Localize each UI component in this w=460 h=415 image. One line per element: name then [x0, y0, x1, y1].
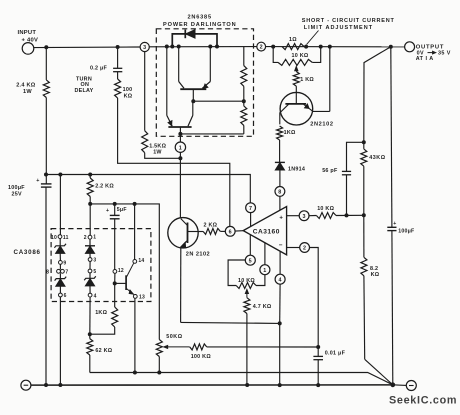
svg-text:1: 1 [263, 268, 266, 274]
capacitor 0.01uF [313, 356, 323, 359]
junction Q2 collector rail [165, 45, 169, 49]
wire pin4 to 62K [89, 297, 91, 339]
pin 12 circle [113, 270, 117, 274]
svg-text:+: + [279, 216, 283, 222]
pin 5 circle [88, 269, 92, 273]
label 0.2uF [90, 65, 108, 71]
svg-text:10: 10 [51, 235, 57, 241]
potentiometer 50K [156, 340, 162, 357]
label 50K [166, 334, 183, 340]
node 5 [245, 255, 255, 265]
big ground junction [390, 382, 395, 387]
wire Q3 emitter up to rail [329, 47, 331, 112]
svg-text:56 pF: 56 pF [322, 168, 338, 174]
label 1K collector [284, 130, 296, 136]
op-amp U1 CA3160 [243, 207, 286, 255]
svg-text:8.2: 8.2 [370, 266, 378, 272]
junction Q1 collector [177, 45, 181, 49]
svg-text:1N914: 1N914 [288, 167, 305, 173]
svg-text:2N 2102: 2N 2102 [186, 252, 210, 258]
wire pin6 to ground [59, 297, 61, 385]
wire rail to pin10/11 [59, 175, 61, 235]
pin 14 circle [133, 260, 137, 264]
wire 1N914 to node 8 [279, 170, 281, 187]
svg-text:35 V: 35 V [438, 50, 451, 56]
svg-text:50KΩ: 50KΩ [166, 334, 183, 340]
transistor T5 (CA3086) [115, 263, 134, 294]
diode D3 (CA3086) [85, 246, 95, 254]
resistor 1K (Q3 collector) [277, 126, 283, 140]
wire 0.01uF wires [317, 347, 319, 385]
svg-text:CA3086: CA3086 [14, 249, 41, 256]
wire D2 to pin 6 [59, 286, 61, 293]
junction 1K/62K [88, 332, 92, 336]
junction 100uF ground [44, 383, 48, 387]
svg-text:DELAY: DELAY [75, 88, 94, 94]
capacitor 0.2uF [113, 68, 122, 71]
svg-text:8: 8 [278, 190, 281, 196]
resistor 100K (delay) [115, 79, 121, 98]
junction pin6 ground [58, 383, 62, 387]
capacitor 56pF [342, 171, 351, 174]
resistor 2K [203, 228, 220, 234]
svg-text:−: − [279, 242, 283, 249]
svg-text:2.4 KΩ: 2.4 KΩ [16, 83, 36, 89]
resistor 1K (wiper) [293, 72, 299, 87]
svg-text:OUTPUT: OUTPUT [416, 44, 444, 50]
svg-text:1W: 1W [153, 150, 162, 156]
svg-text:POWER DARLINGTON: POWER DARLINGTON [163, 22, 236, 28]
wire diode loop [172, 34, 217, 47]
label 56pF [322, 168, 338, 174]
label OUTPUT 0V-35V AT 1A [416, 44, 451, 62]
resistor 100K [190, 344, 207, 350]
wire op-amp to node 3 [287, 215, 300, 217]
svg-text:AT I A: AT I A [416, 56, 434, 62]
offset pot wiper arrow [245, 289, 248, 298]
wire 62K to y372 rail [89, 355, 91, 373]
label 10K offset [238, 278, 255, 284]
transistor Q2 (lower darlington) [167, 47, 193, 128]
wire node 1 to op-amp [264, 243, 266, 265]
resistor R2 (darlington internal bottom) [241, 101, 247, 134]
svg-text:+ 40V: + 40V [22, 37, 39, 43]
node 7 [246, 203, 256, 213]
ground terminal left [21, 380, 31, 390]
label 5uF [117, 207, 127, 213]
svg-text:8: 8 [46, 270, 49, 276]
junction 1ohm right [304, 45, 308, 49]
capacitor 100uF (output) [387, 221, 396, 230]
wire 56pF top [347, 142, 364, 171]
junction pin10/11 column [58, 173, 62, 177]
node 3 (op-amp +input) [299, 211, 309, 221]
wire 1.5K to node1 junction [145, 153, 181, 159]
transistor Q4 2N2102 (error amp) [168, 218, 198, 248]
svg-text:4: 4 [94, 293, 97, 299]
label pin 6 [64, 293, 67, 299]
label 2N2102 upper [310, 121, 334, 127]
wire 1K to 62K top [90, 327, 115, 334]
svg-text:1Ω: 1Ω [289, 37, 297, 43]
label pin 1 [93, 235, 96, 241]
wire node 2 to output [266, 46, 405, 48]
junction Q1 base node [191, 99, 195, 103]
junction 50K rail [157, 371, 161, 375]
wire output junction down [391, 47, 392, 228]
resistor 8.2K [361, 215, 367, 359]
junction Q2 base node [178, 132, 182, 136]
wire Q4 base [188, 231, 204, 233]
junction 43K top [362, 140, 366, 144]
pin 8 circle [57, 269, 61, 273]
junction 4.7K ground [245, 383, 249, 387]
wire node2 to 0.01uF [310, 248, 319, 348]
junction 56pF bottom [345, 213, 349, 217]
svg-text:4.7 KΩ: 4.7 KΩ [253, 304, 272, 310]
svg-text:SHORT - CIRCUIT CURRENT: SHORT - CIRCUIT CURRENT [302, 18, 395, 24]
svg-text:1KΩ: 1KΩ [95, 310, 107, 316]
capacitor 100uF 25V (left) [36, 178, 51, 187]
junction 100uF top [44, 173, 48, 177]
pin 10/11 circle [58, 235, 62, 239]
wire node4 down [279, 284, 281, 323]
label 1 Ohm [289, 37, 297, 43]
resistor 1.5K 1W [142, 131, 148, 153]
junction node4 emitter wire [278, 321, 282, 325]
svg-text:12: 12 [118, 268, 124, 274]
svg-text:5: 5 [249, 258, 252, 264]
dashed box 2N6385 power darlington [156, 29, 253, 137]
wire pins8/7 to zener D2 [59, 273, 61, 278]
svg-text:10 KΩ: 10 KΩ [292, 53, 309, 59]
wire 10K to feedback node [336, 214, 364, 216]
node 8 (op-amp V+) [275, 187, 285, 197]
wire node4 to ground [279, 323, 281, 385]
wire y204 rail and corner down to 50K [90, 204, 159, 340]
node 2 (top rail) [257, 42, 266, 51]
svg-text:2: 2 [303, 246, 306, 252]
wire D1 to pin 9 [59, 253, 61, 260]
label pin 7 [65, 270, 68, 276]
wire rail to 5uF [114, 204, 116, 216]
diode (darlington internal, pointing left) [185, 30, 195, 39]
junction node1 bottom [178, 156, 182, 160]
svg-text:43KΩ: 43KΩ [369, 155, 386, 161]
junction pin13 rail [133, 371, 137, 375]
wire pin14 column [134, 204, 136, 260]
wire base junction down to 1K [114, 283, 116, 307]
svg-text:KΩ: KΩ [124, 94, 133, 100]
label 2.4KOhm 1W [16, 83, 36, 95]
svg-text:INPUT: INPUT [18, 30, 37, 36]
svg-text:1.5KΩ: 1.5KΩ [149, 143, 166, 149]
wire 5uF to pin 12 [114, 219, 116, 270]
svg-text:LIMIT ADJUSTMENT: LIMIT ADJUSTMENT [304, 25, 373, 31]
svg-text:6: 6 [64, 293, 67, 299]
node 1 (darlington base) [175, 134, 185, 158]
svg-text:+: + [393, 221, 396, 227]
wire 2K to node 6 [220, 230, 225, 232]
capacitor 5uF [106, 208, 120, 219]
label 100uF 25V [8, 185, 25, 198]
junction 43K bottom [362, 213, 366, 217]
resistor 2.4K 1W [43, 80, 49, 98]
svg-text:7: 7 [65, 270, 68, 276]
junction diode-loop left [170, 45, 174, 49]
resistor 62K [87, 339, 93, 355]
wire Q4 emitter down [180, 247, 182, 322]
svg-text:7: 7 [249, 206, 252, 212]
label 2K [204, 222, 218, 228]
label pin 5 [93, 269, 96, 275]
svg-text:2N6385: 2N6385 [187, 15, 211, 21]
label 100uF output [398, 229, 414, 235]
label 1.5KOhm 1W [149, 143, 166, 155]
wire node 7 to op-amp [250, 213, 252, 227]
wire node 8 to op-amp [279, 196, 281, 210]
resistor 43K [361, 142, 367, 215]
junction 0.01uF top [316, 345, 320, 349]
svg-text:25V: 25V [12, 192, 22, 198]
junction output sense [389, 45, 393, 49]
wire pin13 to y372 rail [134, 298, 136, 372]
svg-text:10 KΩ: 10 KΩ [238, 278, 255, 284]
pin 4 circle [88, 293, 92, 297]
zener diode D1 (CA3086) [54, 244, 66, 254]
wire node 3 to node 2 [149, 46, 257, 48]
label pin 13 [139, 295, 145, 301]
node 2 (op-amp -input) [300, 243, 310, 253]
wire node3 down [144, 52, 146, 131]
wire 2.4K to 100uF [45, 98, 47, 184]
node 6 (op-amp output) [225, 226, 235, 236]
label pin 11 [63, 235, 69, 241]
wire 1K to Q3 base [295, 86, 297, 103]
transistor Q1 (upper darlington) [179, 47, 211, 90]
junction input branch [44, 45, 48, 49]
label 8.2K [370, 266, 380, 278]
wire junction to right terminal [393, 384, 407, 387]
wire pin5 to zener D4 [89, 273, 91, 278]
svg-text:CA3160: CA3160 [253, 229, 280, 236]
svg-text:14: 14 [138, 258, 144, 264]
resistor 10K (op-amp out) [309, 213, 336, 219]
zener diode D2 (CA3086) [55, 277, 67, 287]
svg-text:2 KΩ: 2 KΩ [204, 222, 218, 228]
label pin 14 [138, 258, 144, 264]
output terminal [405, 42, 415, 52]
wire 2.2K to pin2/1 [89, 204, 91, 235]
label pin 3 [93, 258, 96, 264]
wire base node to R1/R2 [193, 100, 244, 102]
node 3 (top rail) [140, 42, 149, 51]
svg-text:+: + [36, 178, 39, 184]
label pin 2 [84, 235, 87, 241]
svg-text:100μF: 100μF [398, 229, 414, 235]
potentiometer 10K offset [236, 275, 265, 289]
wire D3 to pin 3 [89, 253, 91, 257]
wire op-amp to node 2 [287, 247, 300, 249]
wire node5 L to offset pot [228, 260, 245, 286]
label 62K [95, 348, 112, 354]
label INPUT +40V [18, 30, 39, 43]
svg-text:1W: 1W [23, 89, 32, 95]
svg-text:5μF: 5μF [117, 207, 127, 213]
svg-text:6: 6 [229, 229, 232, 235]
svg-text:3: 3 [93, 258, 96, 264]
wire pin2/1 to diode D3 [89, 239, 91, 246]
resistor 1K (CA3086) [112, 307, 118, 327]
svg-text:62 KΩ: 62 KΩ [95, 348, 112, 354]
zener diode D4 (CA3086) [84, 276, 96, 286]
label 1K CA3086 [95, 310, 107, 316]
wire 0.2uF to 100K [117, 72, 119, 79]
wire node 6 to apex [235, 230, 243, 232]
svg-text:KΩ: KΩ [371, 272, 380, 278]
label pin 9 [63, 261, 66, 267]
svg-text:3: 3 [143, 45, 146, 51]
wire node 4 to op-amp [279, 251, 281, 274]
svg-text:1: 1 [179, 145, 182, 151]
junction T5 base [113, 281, 117, 285]
label pin 10 [51, 235, 57, 241]
junction Q1 emitter-rail [208, 45, 212, 49]
svg-text:3: 3 [302, 214, 305, 220]
label POWER DARLINGTON [163, 22, 236, 28]
svg-text:2: 2 [260, 45, 263, 51]
wire 100K to node 6 rail [118, 98, 230, 227]
svg-text:1 KΩ: 1 KΩ [300, 77, 314, 83]
resistor 2.2K [87, 175, 93, 204]
svg-text:100 KΩ: 100 KΩ [191, 354, 212, 360]
pin 6 circle [59, 293, 63, 297]
label 10K pot [292, 53, 309, 59]
pin 3 circle [88, 258, 92, 262]
svg-text:0.2 μF: 0.2 μF [90, 65, 108, 71]
svg-text:+: + [106, 208, 109, 214]
wire Q2 base to R2 bottom [180, 133, 243, 135]
wire 100uF to ground [391, 231, 394, 385]
label 10K out [317, 206, 334, 212]
svg-text:13: 13 [139, 295, 145, 301]
label 0.01uF [325, 350, 346, 356]
label 1N914 [288, 167, 305, 173]
label 2N2102 lower [186, 252, 210, 258]
wire D4 to pin 4 [89, 286, 91, 293]
wire junction to 0.2uF [117, 47, 119, 68]
wire node 5 to op-amp [249, 235, 251, 256]
wire input to node 3 [34, 46, 140, 49]
label pin 12 [118, 268, 124, 274]
wire pin3 to pin 5 [89, 261, 91, 269]
junction R1 bottom [242, 99, 246, 103]
potentiometer 10K (current limit) [273, 47, 321, 66]
svg-text:2.2 KΩ: 2.2 KΩ [95, 183, 114, 189]
diode 1N914 [275, 162, 285, 170]
label SHORT-CIRCUIT CURRENT LIMIT ADJUSTMENT [302, 18, 395, 31]
junction pot right rail [319, 45, 323, 49]
svg-text:2: 2 [84, 235, 87, 241]
junction 1ohm left [271, 45, 275, 49]
wire 8.2K diagonal to ground [365, 359, 393, 385]
svg-text:5: 5 [93, 269, 96, 275]
wire 56pF bottom [346, 175, 348, 216]
wire pin12 to base junction [114, 273, 116, 283]
pin 2/1 circle [88, 235, 92, 239]
wire pin10/11 to zener D1 [59, 239, 61, 246]
pin 13 circle [133, 295, 137, 299]
pin 9 circle [59, 261, 63, 265]
wire emitter to node4 junction [181, 322, 280, 323]
resistor 4.7K [244, 298, 250, 314]
svg-text:10 KΩ: 10 KΩ [317, 206, 334, 212]
ground terminal right [406, 381, 416, 391]
wire Q2 base down [179, 127, 181, 134]
label pin 4 [94, 293, 97, 299]
label 4.7K [253, 304, 272, 310]
resistor 1 Ohm [282, 44, 304, 50]
transistor Q3 2N2102 (current limiter) [280, 92, 330, 125]
junction diode-loop right [215, 45, 219, 49]
pin 7 circle [61, 269, 65, 273]
label pin 8 [46, 270, 49, 276]
wire mid ground rail [90, 373, 393, 385]
wire input down [45, 47, 47, 80]
label 100K [191, 354, 212, 360]
wire 4.7K to ground [246, 314, 248, 386]
wire Q1 base down [192, 89, 194, 101]
wire 50K to rail [158, 357, 160, 373]
svg-text:9: 9 [63, 261, 66, 267]
wire 1K to 1N914 [279, 140, 281, 162]
svg-text:2N2102: 2N2102 [310, 121, 334, 127]
50K wiper arrow [163, 345, 190, 348]
label 2N6385 [187, 15, 211, 21]
junction 5uF top [113, 202, 117, 206]
junction pin14 column [133, 202, 137, 206]
svg-text:1: 1 [93, 235, 96, 241]
svg-text:100: 100 [123, 87, 133, 93]
node 1 (op-amp offset) [260, 265, 270, 275]
label 43K [369, 155, 386, 161]
label 100K [123, 87, 133, 99]
wire pin9 to pins 8/7 [59, 264, 61, 269]
node 4 (op-amp V-) [275, 274, 285, 284]
input terminal +40V [22, 43, 34, 55]
junction node4 ground [278, 383, 282, 387]
svg-text:11: 11 [63, 235, 69, 241]
junction 2.2K bottom [88, 202, 92, 206]
wire 100uF to ground [45, 187, 47, 385]
label 2.2K [95, 183, 114, 189]
svg-text:4: 4 [278, 277, 281, 283]
resistor R1 (darlington internal top) [241, 47, 247, 102]
svg-text:SeekIC.com: SeekIC.com [389, 395, 457, 407]
junction 0.01uF ground [316, 383, 320, 387]
ground rail [31, 384, 393, 386]
svg-text:0.01 μF: 0.01 μF [325, 350, 346, 356]
label 1K wiper [300, 77, 314, 83]
leader line to 1 ohm [307, 31, 319, 45]
dashed box CA3086 [51, 229, 151, 302]
wire 100K to 0.01uF [207, 346, 319, 348]
label CA3086 [14, 249, 41, 256]
svg-text:100μF: 100μF [8, 185, 25, 191]
svg-text:1KΩ: 1KΩ [284, 130, 296, 136]
wire node1 to 2N2102 collector [179, 158, 181, 218]
wire rail to node7 [46, 175, 250, 203]
